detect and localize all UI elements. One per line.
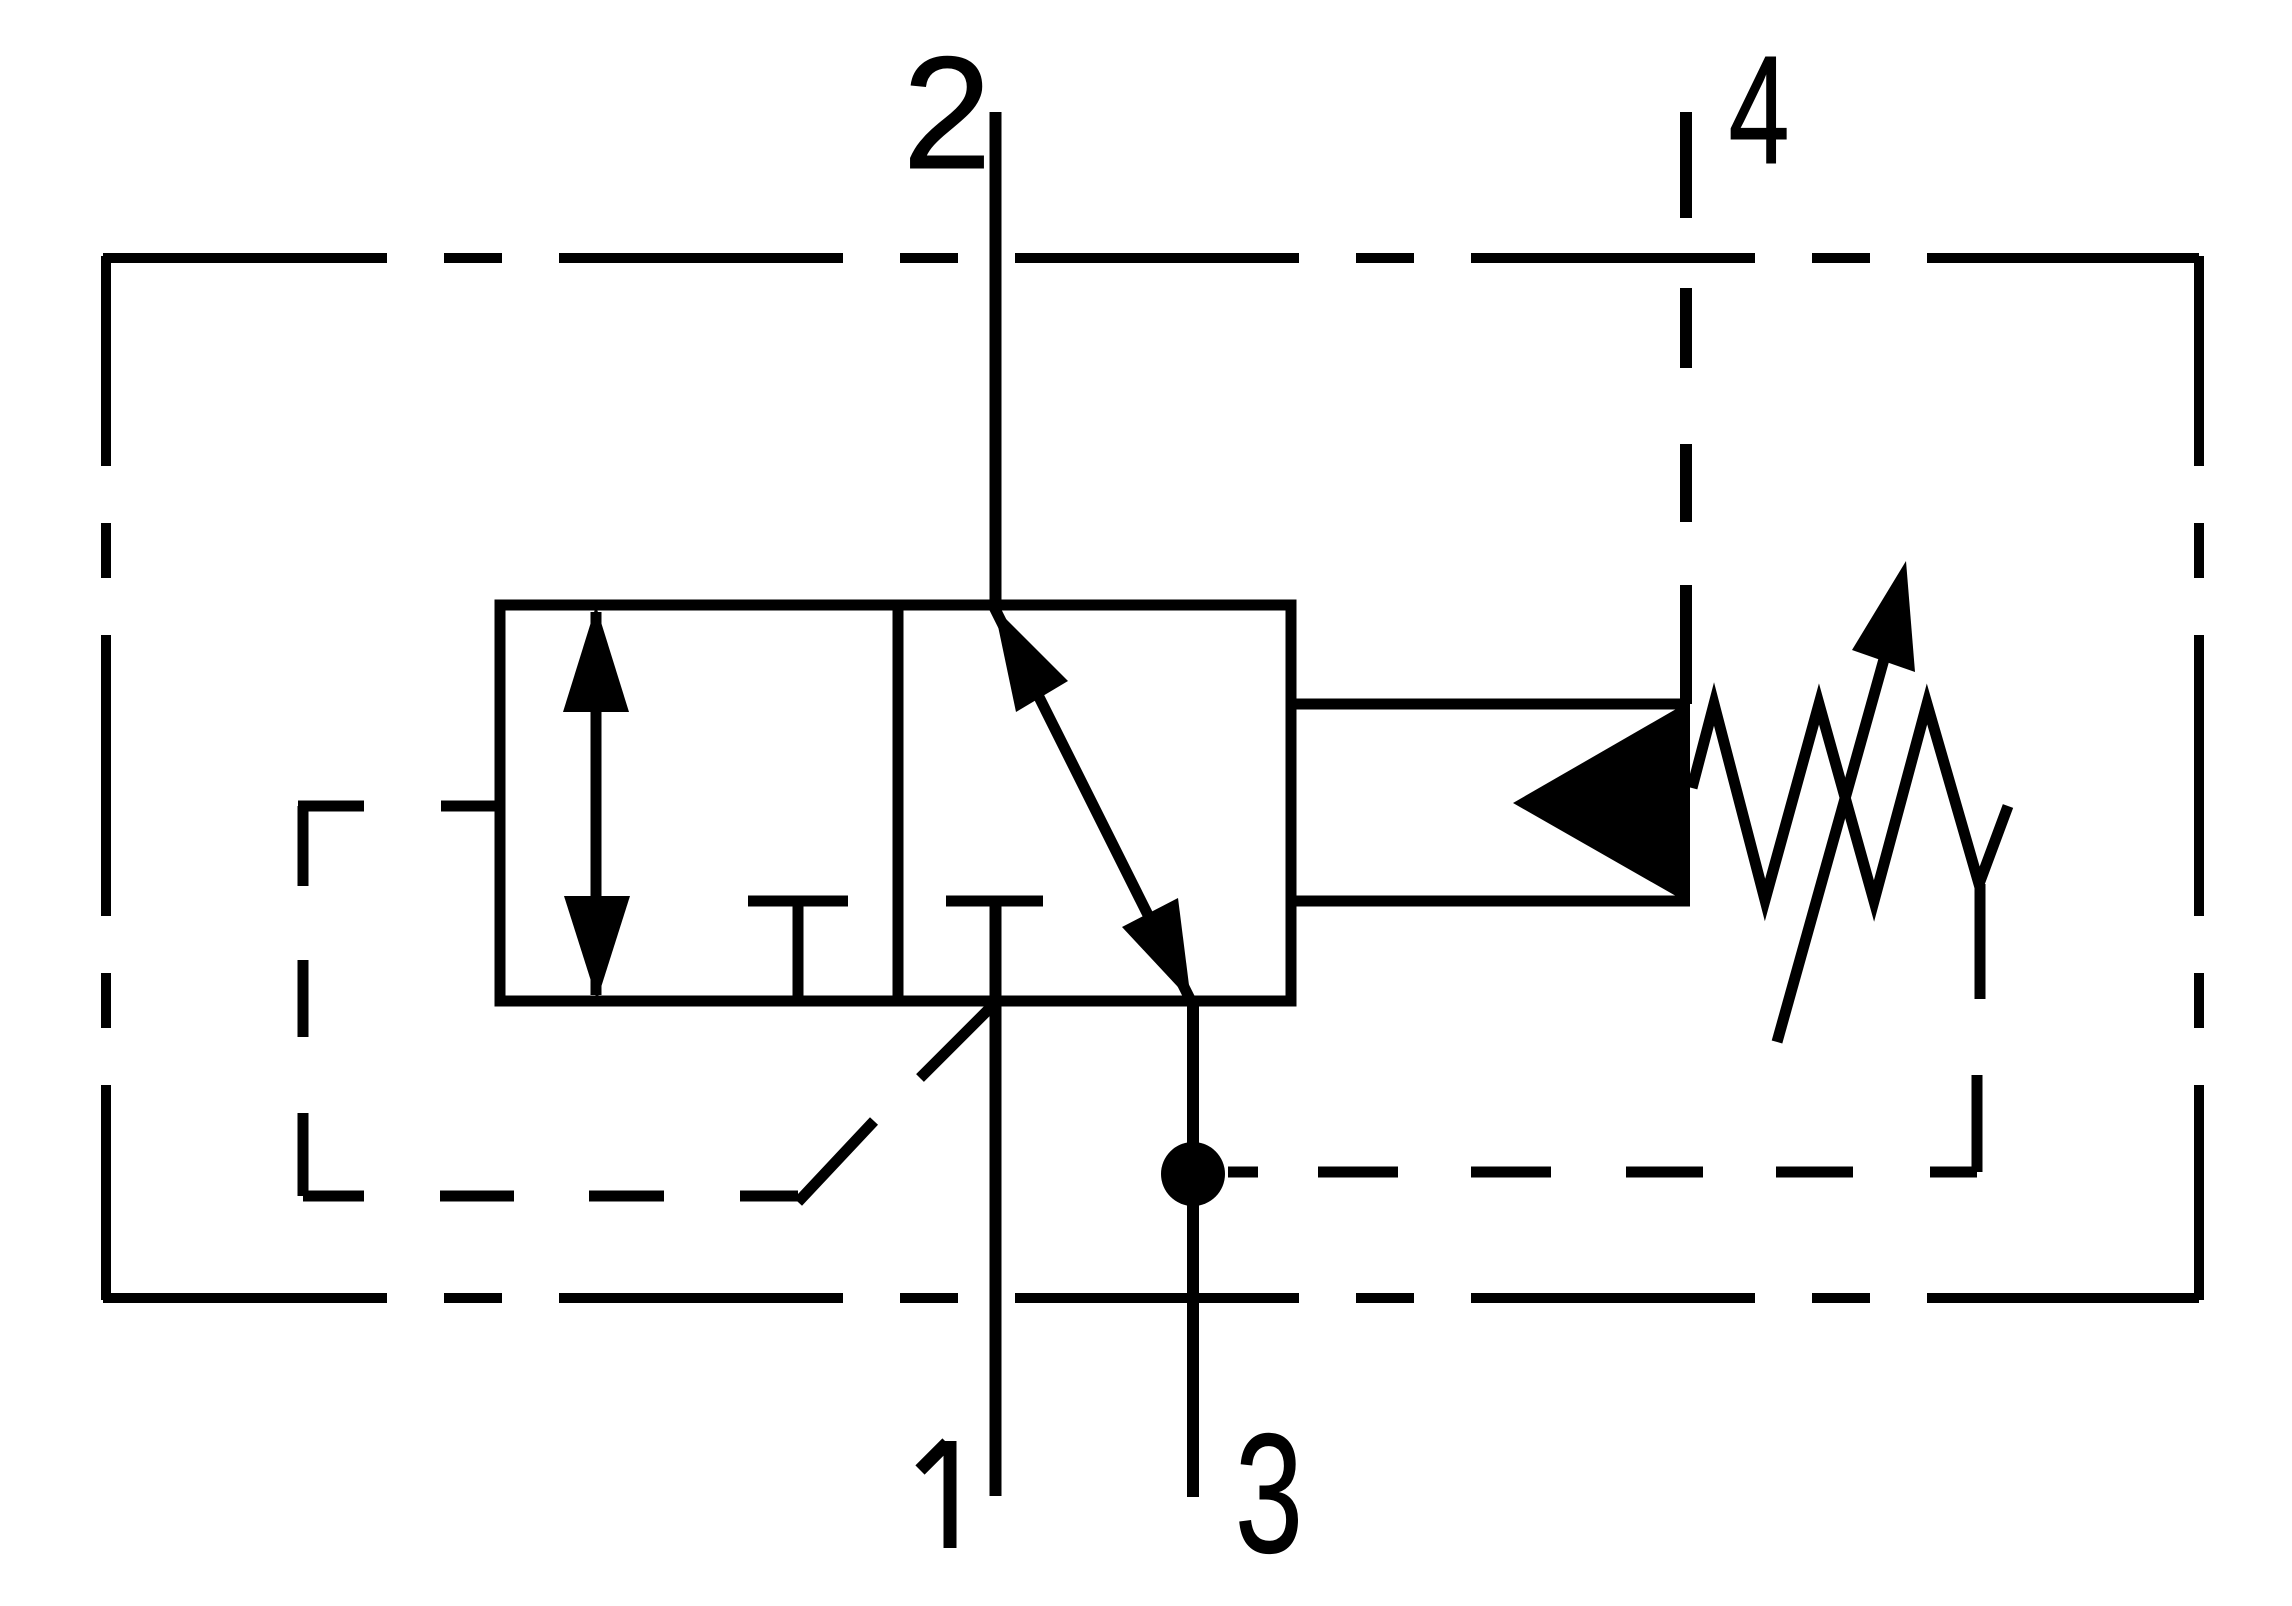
adjustment arrow shaft	[1777, 652, 1886, 1042]
svg-text:4: 4	[1729, 24, 1790, 196]
valve body center divider	[893, 605, 904, 1001]
diagonal arrow upper head	[994, 607, 1068, 712]
port 1 line	[990, 901, 1002, 1496]
enclosure border top (dash-dot)	[103, 253, 2199, 263]
pilot dashed line: diagonal to port 1	[798, 1002, 996, 1202]
enclosure border right (dash-dot)	[2194, 256, 2204, 1300]
pilot pressure triangle	[1513, 701, 1690, 904]
double arrow bottom head	[564, 896, 630, 1000]
closed port T left	[748, 901, 848, 1001]
port 4 dashed pilot line	[1680, 112, 1692, 704]
spring tail stem	[1975, 884, 1986, 999]
enclosure border bottom (dash-dot)	[103, 1293, 2199, 1303]
enclosure border left (dash-dot)	[101, 256, 111, 1300]
valve body box	[500, 605, 1291, 1001]
double arrow shaft (left square)	[591, 612, 602, 995]
actuator top line	[1291, 699, 1690, 710]
pilot dashed line: bottom horizontal	[303, 1191, 798, 1202]
pilot dashed line: left vertical	[298, 806, 309, 1196]
dashed drain line from dot to spring tail	[1228, 1075, 1977, 1172]
label port 1	[920, 1441, 950, 1548]
closed port T right	[946, 896, 1043, 907]
adjustment arrow head	[1852, 561, 1915, 672]
port 2 line	[990, 112, 1002, 605]
junction dot on port 3	[1161, 1142, 1225, 1206]
double arrow top head	[563, 606, 629, 712]
svg-text:3: 3	[1235, 1399, 1303, 1589]
spring zigzag	[1692, 704, 2008, 901]
diagonal arrow lower head	[1122, 898, 1191, 1001]
actuator bottom line	[1291, 896, 1690, 907]
diagonal arrow shaft (right square)	[994, 607, 1191, 1001]
port 3 line	[1187, 1001, 1199, 1497]
pilot dashed line: valve left stub	[298, 801, 500, 812]
svg-text:2: 2	[903, 23, 992, 202]
